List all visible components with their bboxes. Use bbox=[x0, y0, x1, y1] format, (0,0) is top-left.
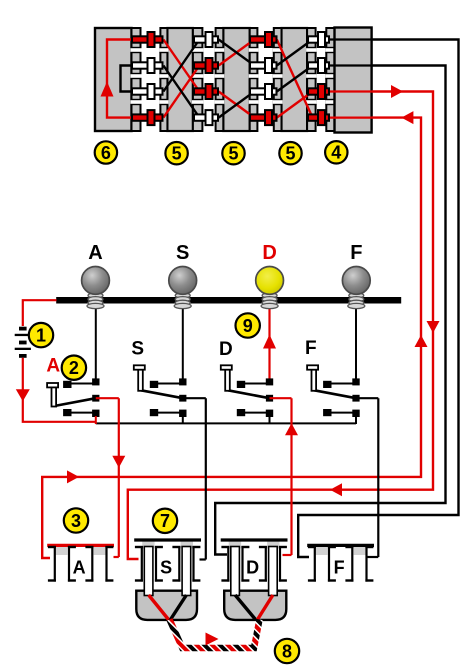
svg-text:A: A bbox=[46, 356, 60, 377]
svg-text:D: D bbox=[246, 558, 259, 578]
svg-text:A: A bbox=[88, 242, 102, 264]
svg-text:8: 8 bbox=[282, 641, 292, 661]
svg-text:F: F bbox=[350, 242, 362, 264]
svg-text:5: 5 bbox=[285, 144, 295, 164]
svg-text:3: 3 bbox=[71, 511, 81, 531]
svg-text:D: D bbox=[262, 242, 276, 264]
svg-text:6: 6 bbox=[101, 143, 111, 163]
svg-text:A: A bbox=[73, 558, 86, 578]
svg-text:9: 9 bbox=[243, 316, 253, 336]
svg-text:S: S bbox=[131, 339, 144, 360]
svg-text:1: 1 bbox=[36, 325, 46, 345]
svg-text:5: 5 bbox=[228, 144, 238, 164]
svg-text:D: D bbox=[219, 339, 233, 360]
svg-text:7: 7 bbox=[160, 511, 170, 531]
svg-text:2: 2 bbox=[69, 358, 79, 378]
svg-text:F: F bbox=[305, 338, 317, 359]
svg-text:5: 5 bbox=[172, 144, 182, 164]
svg-text:F: F bbox=[334, 558, 345, 578]
svg-text:4: 4 bbox=[331, 143, 341, 163]
svg-text:S: S bbox=[176, 242, 189, 264]
svg-text:S: S bbox=[160, 558, 172, 578]
